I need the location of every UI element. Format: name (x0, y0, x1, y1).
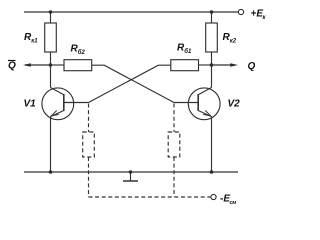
wire Qbar output arrow (25, 64, 51, 66)
svg-text:Q: Q (248, 61, 256, 72)
wire dashed right lower lead (173, 157, 175, 197)
node Q junction (210, 63, 214, 67)
transistor V1 (42, 88, 89, 120)
transistor V2 (174, 88, 220, 120)
svg-text:Q: Q (8, 61, 16, 72)
wire Qbar node to Rb2 (51, 64, 65, 66)
resistor Rк2 (206, 23, 218, 52)
wire Rb1 to Q node (199, 64, 212, 66)
svg-text:Rб2: Rб2 (71, 44, 86, 57)
wire cross-coupling Rb1 to V1 base (89, 65, 171, 102)
svg-text:+Eк: +Eк (251, 9, 267, 22)
wire dashed bias rail (89, 196, 211, 198)
wire dashed left lower lead (88, 157, 90, 197)
svg-text:Rк2: Rк2 (223, 32, 237, 45)
wire top supply rail (24, 11, 238, 13)
wire V2 emitter to ground rail (211, 117, 213, 172)
svg-text:-Eсм: -Eсм (220, 194, 236, 207)
svg-text:Rб1: Rб1 (177, 43, 192, 56)
terminal +Ek (238, 9, 243, 14)
wire cross-coupling Rb2 to V2 base (92, 65, 174, 102)
resistor dashed right bias (168, 132, 180, 157)
wire Rk2 bottom lead / V2 collector (211, 52, 213, 88)
ground (123, 170, 138, 181)
node emitter V1 junction (49, 170, 53, 174)
wire dashed left base bias lead (88, 104, 90, 133)
wire Rk1 bottom lead (50, 52, 52, 88)
resistor Rб1 (171, 60, 199, 71)
svg-text:V2: V2 (228, 99, 241, 110)
svg-text:Rк1: Rк1 (24, 32, 38, 45)
node top-right junction (210, 10, 214, 14)
terminal -Ecm (211, 194, 216, 199)
wire V1 emitter to ground rail (50, 117, 52, 172)
wire Rk1 top lead (50, 12, 52, 23)
resistor Rб2 (64, 60, 92, 71)
wire dashed right base bias lead (173, 104, 175, 133)
node emitter V2 junction (210, 170, 214, 174)
wire Rk2 top lead (211, 12, 213, 23)
resistor Rк1 (45, 23, 57, 52)
node Qbar junction (49, 63, 53, 67)
resistor dashed left bias (83, 132, 95, 157)
svg-text:V1: V1 (24, 99, 37, 110)
node top-left junction (49, 10, 53, 14)
wire Q output arrow (212, 64, 235, 66)
wire bottom ground rail (24, 171, 238, 173)
